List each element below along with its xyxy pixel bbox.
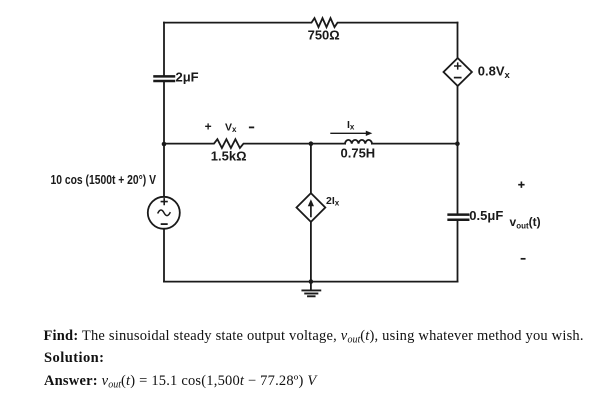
svg-text:10 cos (1500t + 20°) V: 10 cos (1500t + 20°) V (51, 173, 157, 187)
svg-text:+: + (205, 120, 212, 134)
svg-text:vout(t): vout(t) (510, 215, 541, 230)
svg-text:0.5μF: 0.5μF (469, 208, 503, 223)
svg-text:Ix: Ix (347, 119, 355, 132)
svg-text:2μF: 2μF (176, 70, 199, 85)
svg-text:2Ix: 2Ix (326, 195, 340, 208)
svg-text:Vx: Vx (225, 121, 237, 134)
svg-text:750Ω: 750Ω (308, 28, 340, 43)
svg-text:0.8Vx: 0.8Vx (478, 63, 511, 81)
svg-text:0.75H: 0.75H (341, 146, 376, 161)
svg-text:1.5kΩ: 1.5kΩ (211, 149, 247, 164)
